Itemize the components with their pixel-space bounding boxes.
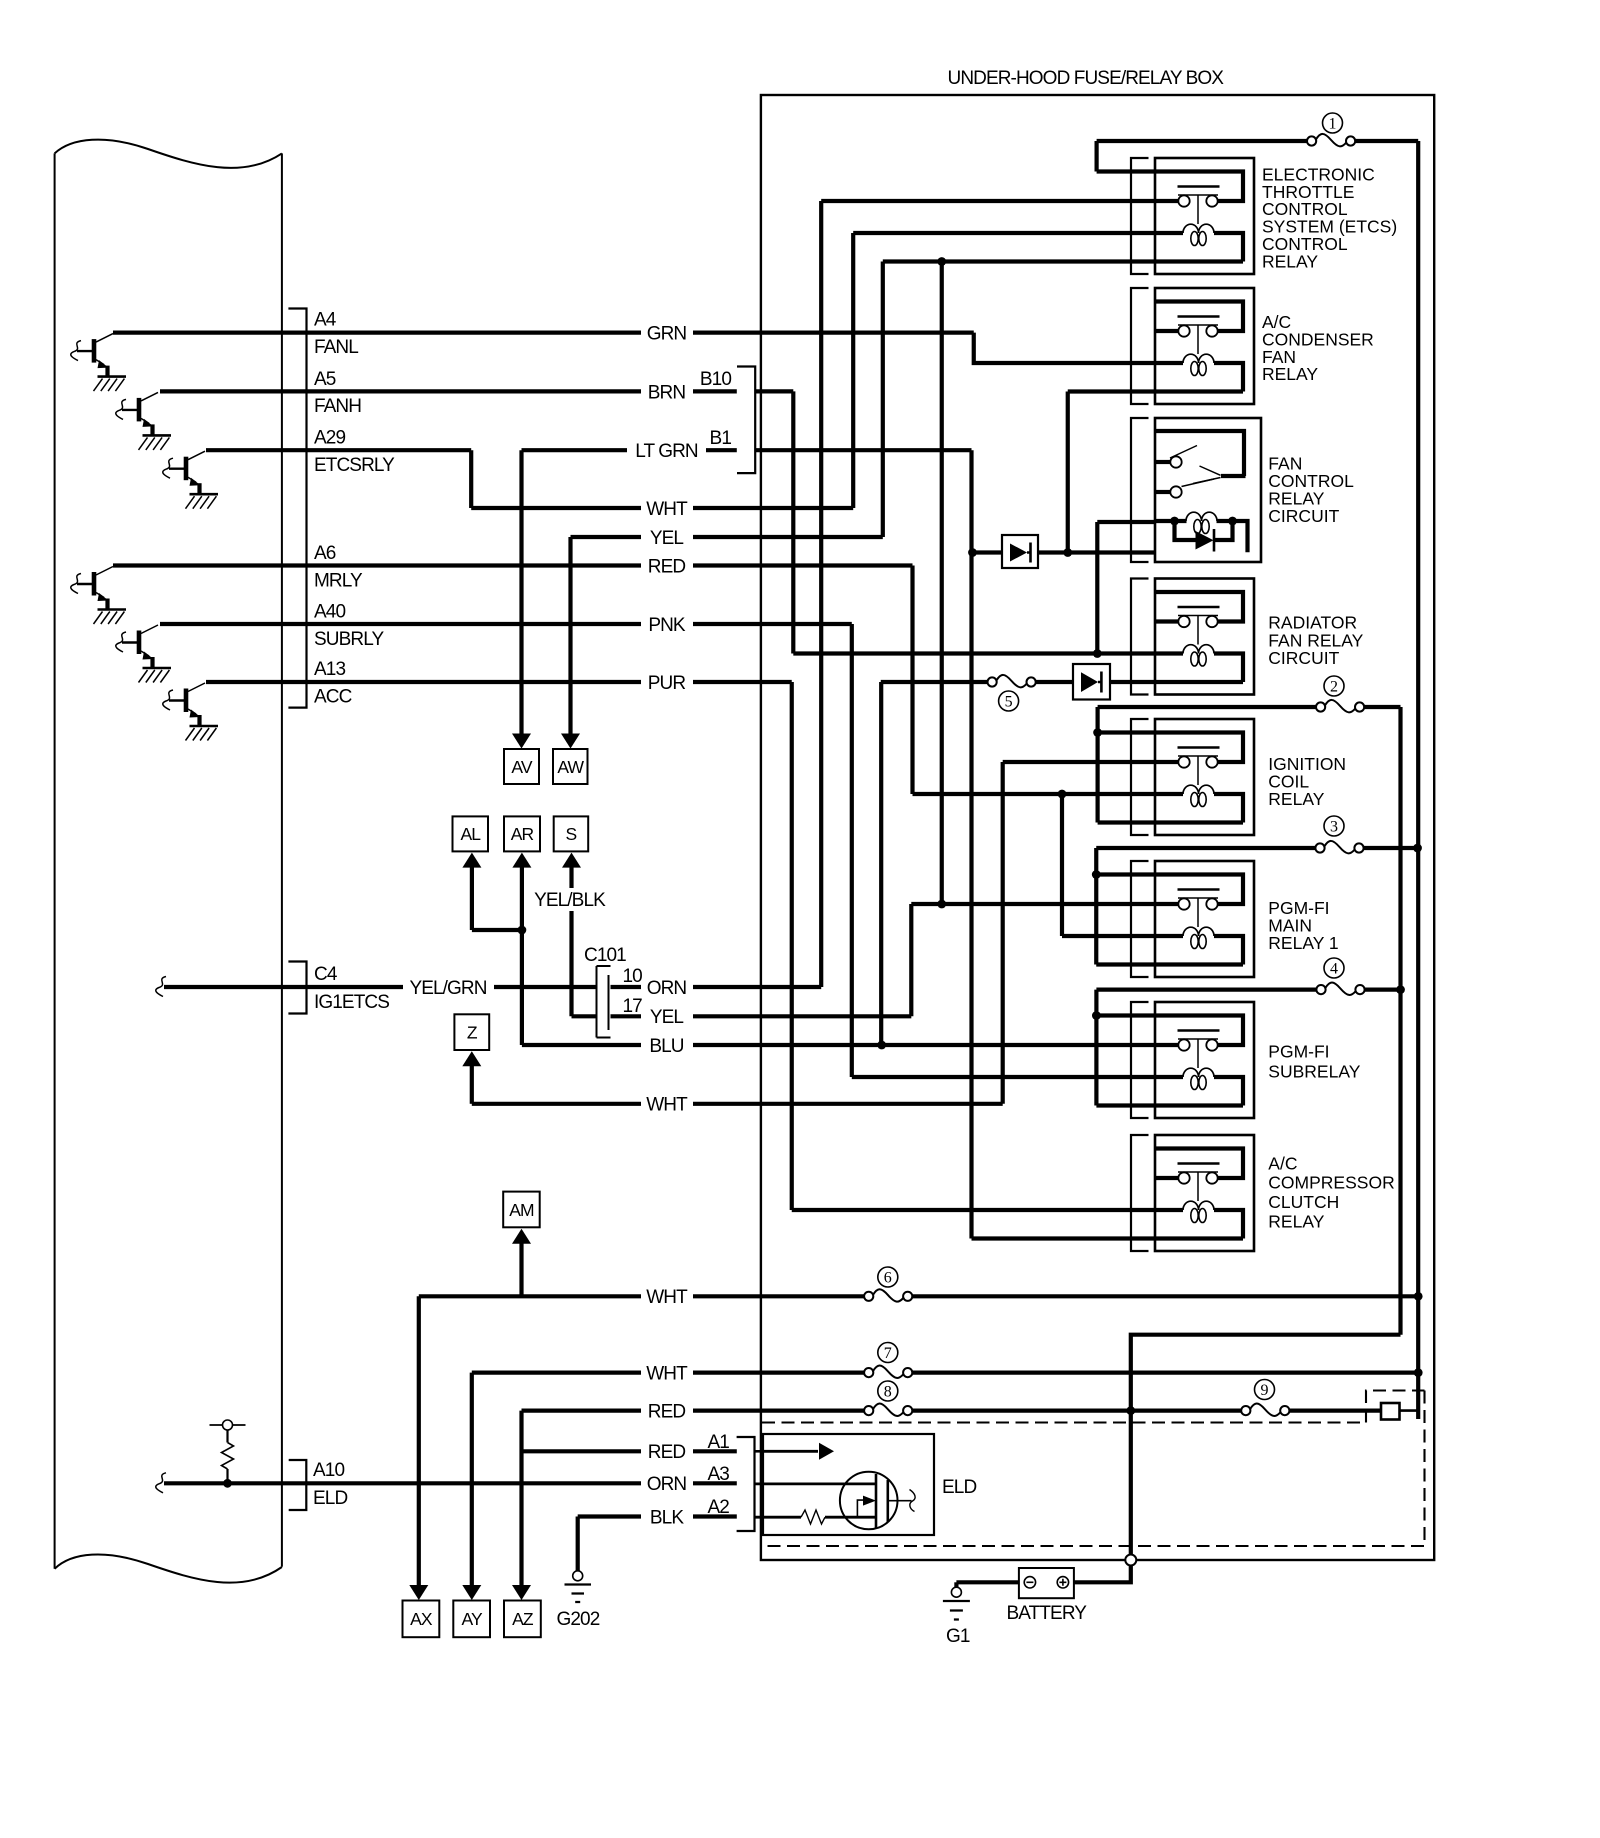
wire to PGM-FI main relay 1 bottom pin	[1096, 962, 1155, 966]
connector AM	[503, 1192, 540, 1228]
svg-text:ACC: ACC	[314, 687, 352, 708]
wire to A/C compressor clutch relay coil pin	[792, 1208, 1155, 1212]
transistor Q5 (SUBRLY driver)	[116, 625, 171, 683]
fuse 1	[1307, 136, 1316, 145]
junction resistor / ELD wire	[223, 1479, 232, 1488]
pull-up resistor R1 on ELD line	[223, 1420, 233, 1430]
wire to battery positive	[1074, 1565, 1131, 1582]
wire to fuse 9	[1131, 1408, 1242, 1412]
wire WHT into box	[693, 1102, 1003, 1106]
relay K6 PGM-FI MAIN RELAY 1	[1131, 861, 1254, 977]
wire fuse 5 to diode	[1036, 680, 1074, 684]
connector AX	[403, 1601, 440, 1638]
wire RED down to connector AZ	[519, 1411, 523, 1587]
wire break squiggle C4	[156, 977, 166, 997]
relay K5 IGNITION COIL RELAY	[1131, 719, 1254, 835]
wire YEL/BLK to C101 pin17	[572, 1014, 597, 1018]
ELD A1 internal line	[763, 1450, 818, 1453]
wire AL junction horizontal	[472, 928, 522, 932]
PCM torn band bottom wavy edge	[55, 1555, 282, 1583]
wire ETCSRLY to WHT	[471, 506, 641, 510]
svg-text:C101: C101	[584, 945, 626, 966]
wire to PGM-FI main relay 1 contact pin	[911, 902, 1155, 906]
svg-text:PUR: PUR	[648, 673, 686, 694]
wire to PGM-FI main relay 1 top pin	[1096, 872, 1155, 876]
wire BLK row left	[578, 1514, 641, 1518]
svg-text:SUBRLY: SUBRLY	[314, 629, 384, 650]
wire RED fuse8 row left	[522, 1408, 642, 1412]
connector AY	[453, 1601, 490, 1638]
wire LT GRN from B1 into box	[755, 448, 971, 452]
ELD A2 line	[755, 1516, 802, 1519]
svg-text:LT GRN: LT GRN	[635, 441, 698, 462]
wire bus B down to RED fuse9 row	[1131, 1335, 1401, 1411]
svg-text:PGM-FI: PGM-FI	[1268, 1042, 1329, 1062]
junction AL/AR	[518, 926, 527, 935]
wire YEL down to connector AW	[568, 537, 572, 735]
svg-text:B10: B10	[700, 369, 731, 390]
wire break squiggle A10	[156, 1473, 166, 1493]
wire BRN vertical down to radiator fan relay coil row	[791, 391, 795, 653]
arrow into AW	[561, 734, 580, 749]
wire WHT into box	[693, 506, 853, 510]
wire RED into box	[693, 563, 913, 567]
svg-text:ETCSRLY: ETCSRLY	[314, 455, 395, 476]
wire WHT fuse6 row left	[419, 1294, 641, 1298]
svg-text:UNDER-HOOD FUSE/RELAY BOX: UNDER-HOOD FUSE/RELAY BOX	[948, 68, 1225, 89]
wire A5 FANH to BRN (left)	[160, 389, 641, 393]
svg-text:IG1ETCS: IG1ETCS	[314, 992, 389, 1013]
wire fuse 8 to fuse 9 row	[912, 1408, 1131, 1412]
svg-text:BRN: BRN	[648, 382, 686, 403]
wire vertical PGM-FI subrelay feed	[1094, 990, 1098, 1106]
wire vertical to A/C condenser fan relay bottom pin	[1066, 392, 1070, 553]
svg-text:RED: RED	[648, 557, 686, 578]
junction BLU row / fuse5 branch	[877, 1041, 886, 1050]
wire A29 ETCSRLY	[206, 448, 471, 452]
svg-text:AM: AM	[509, 1200, 534, 1220]
battery feed connector square	[1381, 1403, 1400, 1420]
svg-text:YEL: YEL	[650, 1007, 684, 1028]
arrow into AV	[512, 734, 531, 749]
wire ORN vertical up to ETCS relay pin 2	[819, 201, 823, 987]
arrow into AX	[409, 1585, 428, 1600]
svg-text:B1: B1	[710, 428, 732, 449]
wire A40 SUBRLY	[160, 622, 641, 626]
ground G1	[951, 1587, 961, 1597]
svg-text:RELAY 1: RELAY 1	[1268, 933, 1338, 953]
junction diode row / A/C condenser branch	[1063, 548, 1072, 557]
wire diode to radiator fan relay bottom pin	[1110, 680, 1155, 684]
wire A13 ACC	[206, 680, 641, 684]
wire to ETCS relay bottom pin	[883, 259, 1155, 263]
wire BRN from B10 into box	[755, 389, 793, 393]
wire ORN into box	[693, 985, 821, 989]
connector bracket B10/B1	[737, 367, 755, 474]
wire LT GRN to connector B1	[706, 448, 737, 452]
svg-text:17: 17	[623, 996, 643, 1017]
junction ignition relay top pin	[1093, 728, 1102, 737]
svg-text:A/C: A/C	[1268, 1153, 1297, 1173]
wire WHT fuse7 row left	[472, 1370, 641, 1374]
wire fuse 2 to bus B	[1364, 705, 1401, 709]
junction ignition coil row / PGM-FI main coil branch	[1058, 790, 1067, 799]
wire to A/C compressor clutch relay bottom pin	[972, 1236, 1156, 1240]
wire RED to ELD connector A1	[693, 1449, 737, 1453]
fuse 3	[1315, 843, 1324, 852]
wire diode to fan control relay bottom bus	[1038, 550, 1155, 554]
battery	[1019, 1568, 1074, 1598]
wire AR down to BLU row	[520, 867, 524, 1046]
svg-text:BLK: BLK	[650, 1507, 684, 1528]
svg-text:RELAY: RELAY	[1262, 251, 1318, 271]
wire YEL/GRN to C101	[494, 985, 596, 989]
wire to PGM-FI main relay 1 coil pin	[1062, 934, 1155, 938]
svg-text:RELAY: RELAY	[1268, 789, 1324, 809]
relay K3 FAN CONTROL RELAY CIRCUIT	[1131, 418, 1261, 562]
wire to ETCS relay contact pin	[821, 199, 1155, 203]
svg-text:AR: AR	[511, 824, 534, 844]
relay K1 ELECTRONIC THROTTLE CONTROL SYSTEM (ETCS) CONTROL RELAY	[1131, 158, 1254, 274]
wire to ETCS relay coil pin	[853, 231, 1155, 235]
wire BLK down to ground G202	[576, 1517, 580, 1572]
under-hood fuse/relay box outline	[761, 95, 1434, 1560]
wire fuse 6 to bus A	[912, 1294, 1418, 1298]
wire to diode D1	[973, 550, 1003, 554]
svg-text:AZ: AZ	[512, 1609, 534, 1629]
svg-text:ORN: ORN	[647, 1474, 687, 1495]
diode D1 (fan control relay feed)	[1002, 535, 1038, 568]
wire YEL vertical up to ETCS relay pin 4	[881, 262, 885, 538]
arrow into Z	[462, 1051, 481, 1066]
svg-text:AV: AV	[511, 757, 532, 777]
svg-text:YEL: YEL	[650, 528, 684, 549]
wire to PGM-FI subrelay top pin	[1096, 1013, 1155, 1017]
transistor Q6 (ACC driver)	[163, 683, 218, 741]
connector bracket ELD A1/A3/A2	[737, 1437, 755, 1531]
wire fuse 9 to battery connector	[1289, 1408, 1381, 1412]
PCM torn band top wavy edge	[55, 140, 282, 168]
svg-text:7: 7	[884, 1345, 892, 1362]
wire A10 ELD	[164, 1481, 306, 1485]
wire to PGM-FI subrelay bottom pin	[1096, 1103, 1155, 1107]
wire Z down to WHT row	[470, 1065, 474, 1104]
ground G202	[573, 1571, 583, 1581]
svg-text:6: 6	[884, 1270, 892, 1287]
wire to PGM-FI subrelay coil pin	[852, 1075, 1155, 1079]
relay K2 A/C CONDENSER FAN RELAY	[1131, 288, 1254, 404]
svg-text:PNK: PNK	[648, 615, 686, 636]
wire to ignition coil relay top pin	[1098, 730, 1155, 734]
wire to A/C condenser fan relay bottom pin	[1068, 389, 1155, 393]
dashed battery/ELD boundary box	[762, 1421, 1366, 1423]
PCM torn band right edge	[281, 153, 283, 1566]
svg-text:YEL/BLK: YEL/BLK	[534, 890, 606, 911]
wire A4 FANL to GRN (left)	[113, 331, 641, 335]
svg-text:RED: RED	[648, 1442, 686, 1463]
junction ETCS bottom pin / diode branch	[937, 257, 946, 266]
wire A10 to ORN	[306, 1481, 641, 1485]
svg-text:C4: C4	[314, 964, 338, 985]
wire AM down to WHT row	[519, 1243, 523, 1297]
svg-text:BLU: BLU	[649, 1036, 683, 1057]
connector bracket pin C4	[288, 962, 306, 1014]
arrow into AZ	[512, 1585, 531, 1600]
junction bus A / fuse 7 row	[1414, 1368, 1423, 1377]
relay K8 A/C COMPRESSOR CLUTCH RELAY	[1131, 1135, 1254, 1251]
svg-text:A13: A13	[314, 659, 345, 680]
wire PUR into box	[693, 680, 792, 684]
ELD box	[763, 1434, 934, 1535]
connector AV	[504, 749, 539, 784]
wire S YEL/BLK upper segment	[569, 867, 573, 889]
junction PGM-FI main contact row	[937, 900, 946, 909]
junction PGM-FI subrelay top pin	[1092, 1011, 1101, 1020]
connector bracket pins A4-A13	[288, 309, 306, 708]
svg-text:AY: AY	[462, 1609, 483, 1629]
svg-text:A4: A4	[314, 310, 337, 331]
wire YEL into box	[693, 535, 883, 539]
wire S YEL/BLK down to C101 pin 17	[569, 911, 573, 1016]
wire fuse 1 to right bus	[1355, 139, 1418, 143]
wire to fan control relay coil pin	[1097, 520, 1155, 524]
wire vertical fuse5 branch down to BLU row	[879, 682, 883, 1045]
svg-text:1: 1	[1329, 116, 1337, 133]
wire BLU from AR	[522, 1043, 641, 1047]
wire to ETCS relay top pin	[1097, 169, 1155, 173]
bus right B (fuse 2)	[1398, 707, 1402, 1335]
wire fuse 7 to bus A	[912, 1370, 1418, 1374]
svg-text:FANH: FANH	[314, 396, 361, 417]
svg-text:WHT: WHT	[646, 1287, 688, 1308]
ELD current arrow	[819, 1443, 834, 1460]
svg-text:A1: A1	[708, 1432, 730, 1453]
fuse 6	[864, 1292, 873, 1301]
svg-text:A2: A2	[708, 1497, 730, 1518]
wire vertical PGM-FI main relay feed	[1094, 848, 1098, 965]
wire fuse 4 to bus B	[1364, 987, 1400, 991]
wire GRN jog to A/C condenser fan relay coil	[974, 333, 1155, 363]
svg-text:G1: G1	[946, 1626, 970, 1647]
fuse 7	[864, 1368, 873, 1377]
wire WHT to fuse 7	[693, 1370, 864, 1374]
ELD A3 line	[755, 1483, 877, 1486]
svg-text:ELD: ELD	[942, 1477, 976, 1498]
wire vertical fan control coil to radiator coil row	[1095, 522, 1099, 654]
svg-text:AX: AX	[410, 1609, 433, 1629]
wire PNK into box	[693, 622, 852, 626]
junction bus A / fuse 6 row	[1414, 1292, 1423, 1301]
arrow into AR	[512, 853, 531, 868]
wire battery negative to ground G1	[956, 1580, 1019, 1584]
svg-text:ORN: ORN	[647, 978, 687, 999]
wire WHT vertical up to ignition coil relay contact row	[1001, 762, 1005, 1104]
svg-text:4: 4	[1330, 961, 1338, 978]
svg-text:MRLY: MRLY	[314, 571, 363, 592]
svg-text:WHT: WHT	[646, 1095, 688, 1116]
diode D2 (radiator fan relay circuit feed)	[1073, 664, 1110, 700]
relay K4 RADIATOR FAN RELAY CIRCUIT	[1131, 579, 1254, 695]
PCM torn band left edge	[54, 153, 56, 1568]
svg-text:AL: AL	[460, 824, 481, 844]
svg-text:BATTERY: BATTERY	[1007, 1603, 1088, 1624]
svg-text:RELAY: RELAY	[1268, 1212, 1324, 1232]
connector AW	[553, 749, 588, 784]
wire WHT down to connector AY	[470, 1373, 474, 1587]
wire LT GRN vertical down to A/C compressor clutch relay	[969, 450, 973, 1238]
junction bus A / fuse 3	[1413, 844, 1422, 853]
junction fuse 9 row / bus B drop	[1126, 1406, 1135, 1415]
svg-text:RED: RED	[648, 1401, 686, 1422]
wire RED vertical down to ignition coil relay coil row	[910, 566, 914, 795]
connector AR	[504, 816, 540, 851]
wire vertical to PGM-FI main relay 1 coil	[1060, 794, 1064, 936]
junction radiator fan relay coil row	[1093, 649, 1102, 658]
svg-text:Z: Z	[467, 1022, 478, 1042]
wire AL down to junction	[470, 867, 474, 931]
svg-text:3: 3	[1330, 819, 1338, 836]
wire YEL from AW branch	[571, 535, 642, 539]
svg-text:S: S	[566, 824, 577, 844]
svg-text:5: 5	[1005, 694, 1013, 711]
wire YEL vertical up to PGM-FI main relay contact row	[909, 904, 913, 1016]
arrow into AL	[462, 853, 481, 868]
svg-text:AW: AW	[557, 757, 584, 777]
bus right A (fuse 1 feed)	[1416, 141, 1420, 1419]
svg-text:FANL: FANL	[314, 337, 358, 358]
svg-text:WHT: WHT	[646, 499, 688, 520]
ELD sense resistor	[801, 1510, 825, 1524]
wire YEL into box	[693, 1014, 911, 1018]
svg-text:GRN: GRN	[647, 324, 687, 345]
wire BRN to connector B10	[693, 389, 737, 393]
wire LT GRN down to connector AV	[519, 450, 523, 734]
wire WHT down to connector AX	[417, 1296, 421, 1586]
svg-text:YEL/GRN: YEL/GRN	[409, 978, 486, 999]
junction PGM-FI main relay top pin	[1092, 870, 1101, 879]
connector bracket pin A10	[289, 1460, 307, 1510]
svg-text:A5: A5	[314, 369, 336, 390]
wire RED to fuse 8	[693, 1408, 864, 1412]
connector S	[554, 816, 589, 851]
svg-text:SUBRELAY: SUBRELAY	[1268, 1062, 1360, 1082]
svg-text:9: 9	[1261, 1382, 1269, 1399]
wire to ignition coil relay contact pin	[1003, 760, 1155, 764]
wire A6 MRLY	[113, 563, 641, 567]
wire PNK vertical down to PGM-FI subrelay coil row	[850, 624, 854, 1077]
terminal on box edge	[1125, 1555, 1136, 1566]
wire C4 IG1ETCS	[164, 985, 403, 989]
wire vertical ETCS pin4 branch down to PGM-FI main relay contact row	[940, 262, 944, 905]
svg-text:G202: G202	[557, 1609, 600, 1630]
wire fuse 2 feed	[1098, 705, 1317, 709]
connector Z	[454, 1014, 489, 1050]
svg-text:8: 8	[884, 1384, 892, 1401]
fuse 9	[1241, 1406, 1250, 1415]
transistor Q3 (ETCSRLY driver)	[163, 451, 218, 509]
junction LT GRN / diode row	[968, 548, 977, 557]
svg-text:CIRCUIT: CIRCUIT	[1268, 648, 1339, 668]
connector AL	[453, 816, 489, 851]
svg-text:A40: A40	[314, 602, 345, 623]
arrow into S	[562, 853, 581, 868]
wire WHT from Z	[472, 1102, 641, 1106]
wire fuse 3 feed	[1096, 846, 1315, 850]
wire WHT vertical up to ETCS relay coil	[851, 233, 855, 508]
transistor Q2 (FANH driver)	[116, 392, 171, 450]
wire fuse 3 to bus A	[1363, 846, 1417, 850]
wire C101 pin10 to ORN	[611, 985, 642, 989]
svg-text:2: 2	[1330, 679, 1338, 696]
wire BRN row to radiator fan relay coil pin	[793, 651, 1155, 655]
wire fuse 5 feed from BLU junction branch	[881, 680, 988, 684]
svg-text:COMPRESSOR: COMPRESSOR	[1268, 1173, 1394, 1193]
svg-text:A3: A3	[708, 1464, 730, 1485]
wire LT GRN from AV branch	[522, 448, 628, 452]
wire to ignition coil relay coil pin	[913, 792, 1156, 796]
arrow into AM	[512, 1229, 531, 1244]
wire RED A1 row left	[522, 1449, 642, 1453]
svg-text:ELD: ELD	[313, 1488, 347, 1509]
wire to ignition coil relay bottom pin	[1098, 820, 1155, 824]
junction bus B / fuse 4	[1396, 985, 1405, 994]
ELD MOSFET Q7	[840, 1472, 898, 1530]
wire C101 pin17 to YEL	[611, 1014, 642, 1018]
wire fuse 4 feed	[1096, 987, 1316, 991]
wire BLK to ELD connector A2	[693, 1514, 737, 1518]
wire PUR vertical down to A/C compressor clutch relay coil row	[790, 682, 794, 1210]
wire ETCSRLY vertical jog	[469, 450, 473, 508]
fuse 4	[1316, 985, 1325, 994]
wire GRN into box	[693, 331, 974, 335]
wire BLU to PGM-FI subrelay contact pin	[693, 1043, 1155, 1047]
connector AZ	[504, 1601, 541, 1638]
fuse 5	[988, 677, 997, 686]
svg-text:A10: A10	[313, 1460, 344, 1481]
wire battery positive feed	[1129, 1411, 1133, 1555]
wire WHT to fuse 6	[693, 1294, 864, 1298]
svg-text:RELAY: RELAY	[1262, 364, 1318, 384]
svg-text:WHT: WHT	[646, 1363, 688, 1384]
svg-text:CLUTCH: CLUTCH	[1268, 1192, 1339, 1212]
wire fuse1 drop to ETCS relay	[1094, 141, 1098, 172]
wire fuse 1 feed	[1097, 139, 1308, 143]
wire vertical ignition coil relay feed	[1095, 707, 1099, 823]
relay K7 PGM-FI SUBRELAY	[1131, 1002, 1254, 1118]
wire ORN to ELD connector A3	[693, 1481, 737, 1485]
connector C101	[597, 966, 611, 1038]
fuse 8	[864, 1406, 873, 1415]
arrow into AY	[462, 1585, 481, 1600]
fuse 2	[1316, 702, 1325, 711]
transistor Q1 (FANL driver)	[71, 334, 126, 392]
wire connector square to bus A	[1400, 1409, 1419, 1412]
svg-text:10: 10	[623, 966, 643, 987]
svg-text:A29: A29	[314, 428, 345, 449]
transistor Q4 (MRLY driver)	[71, 567, 126, 625]
svg-text:CIRCUIT: CIRCUIT	[1268, 506, 1339, 526]
svg-text:A6: A6	[314, 543, 336, 564]
